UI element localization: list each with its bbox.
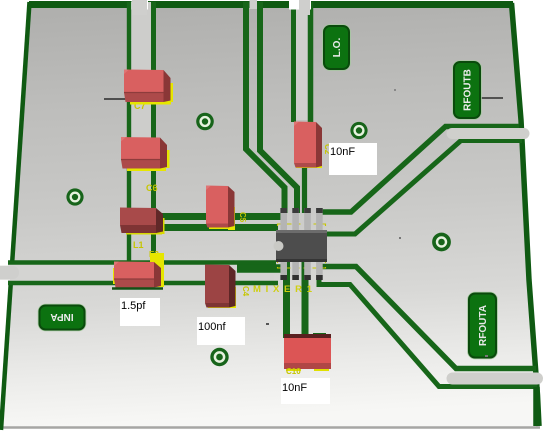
wire: mid column right outline (308, 2, 314, 122)
pin 5 bottom (316, 259, 323, 280)
IC body (276, 230, 327, 262)
pin 2 top (292, 208, 299, 231)
capacitor C4 100nf (dark, vertical) (205, 265, 236, 309)
wire: IC bottom pin1 trace down to C10 (283, 262, 290, 338)
wire: trace from top capacitor down to IC pin 3 (302, 166, 307, 213)
wire: RFOUTA upper trace (322, 267, 536, 369)
pin 4 top (316, 208, 323, 231)
wire: trace pair to IC pins 1-2, right member (260, 2, 297, 213)
leader line to C7 (104, 98, 148, 100)
board bottom edge (1, 426, 540, 429)
wire: RFOUTB upper trace from IC pin 4 (319, 127, 519, 213)
tooltip 10nF top (329, 143, 377, 175)
svg-text:L1: L1 (133, 240, 144, 250)
wire: trace pair to IC pins 1-2, left member (246, 2, 285, 213)
wire: left column right outline (151, 2, 156, 264)
wire: IC bottom pin3 trace down to C10 (302, 262, 309, 338)
capacitor C6 (121, 137, 170, 171)
wire: corner trace down right edge (533, 387, 540, 426)
via left (66, 188, 83, 205)
pin 1 top (280, 208, 287, 231)
op-amp U1 MIXER1 SOIC-8 (274, 208, 328, 280)
inductor L1 (112, 253, 164, 289)
wire: RFOUTA wide gray stub to edge (453, 373, 538, 385)
label L.O. (323, 25, 350, 70)
pin 8 bottom (280, 259, 287, 280)
wire: left edge gray stub overhang (0, 266, 19, 279)
capacitor C10 10nF bottom (284, 334, 331, 371)
label INPA (upside down) (39, 305, 86, 331)
via top left (196, 113, 214, 131)
wire: RFOUTB wide gray stub to edge (452, 128, 524, 139)
svg-text:10nF: 10nF (282, 382, 307, 394)
wire: RFOUTB lower trace (326, 141, 522, 235)
svg-text:C6: C6 (146, 183, 158, 193)
capacitor C7 (124, 70, 173, 105)
speck bottom right (485, 355, 488, 357)
node: top edge gap for left column stub (132, 0, 149, 10)
svg-text:L.O.: L.O. (332, 38, 343, 58)
label RFOUTA (468, 293, 497, 359)
capacitor C2 10nF top (vertical) (294, 122, 322, 169)
wire: left column left outline (127, 2, 131, 264)
svg-text:10nF: 10nF (330, 146, 355, 158)
wire: pair gray stub overhang at top (250, 0, 258, 9)
pad silkscreen top (278, 224, 326, 231)
svg-text:100nf: 100nf (198, 321, 226, 333)
via right middle (432, 233, 451, 252)
tooltip 100nf (197, 317, 245, 345)
label RFOUTB (453, 61, 481, 119)
capacitor C5 (vertical) (206, 186, 235, 231)
inductor C8 (dark) (120, 208, 165, 235)
via near 10nF label (350, 122, 367, 139)
board edge top (29, 1, 513, 8)
wire: small trace at C10 top right (313, 333, 326, 336)
leader line from RFOUTB (479, 97, 503, 99)
wire: left horizontal wide trace fill (8, 265, 274, 282)
node: top edge gap for mid column stub (289, 0, 311, 10)
svg-text:INPA: INPA (50, 311, 73, 322)
wire: left horizontal wide trace top outline (8, 260, 276, 264)
svg-text:C4: C4 (241, 286, 250, 297)
wire: left horizontal wide trace bottom outline (8, 281, 278, 286)
svg-text:RFOUTB: RFOUTB (463, 69, 474, 111)
wire: mid column gray stub overhang (299, 0, 310, 15)
wire: RFOUTA lower trace from IC pin 5 (319, 262, 537, 387)
wire: mid column left outline (291, 2, 296, 122)
node: left edge gap for stub (0, 266, 10, 281)
speck top (394, 89, 396, 91)
tooltip 10nF bottom (281, 378, 330, 404)
pin-1 notch (274, 241, 284, 251)
wire: mid wide vertical trace fill (L.O. column) (294, 2, 312, 120)
tooltip 1.5pf (120, 298, 160, 326)
svg-text:RFOUTA: RFOUTA (478, 305, 489, 346)
svg-text:C5: C5 (238, 212, 247, 223)
wire: horizontal trace C8 to C5 to IC upper (160, 213, 281, 220)
board edge right (512, 3, 540, 426)
pin 7 bottom (292, 259, 299, 280)
wire: left wide vertical trace fill (C-chain column) (131, 2, 151, 264)
wire: horizontal trace C8 to C5 to IC lower (160, 224, 278, 231)
speck near 100nf (266, 323, 269, 325)
pin 6 bottom (304, 259, 311, 280)
speck right (399, 237, 401, 239)
pin 3 top (304, 208, 311, 231)
wire: 100nf to IC bottom elbow (237, 264, 283, 273)
board edge left (1, 2, 30, 430)
wire: left column gray stub overhang (132, 0, 147, 15)
svg-text:1.5pf: 1.5pf (121, 300, 146, 312)
svg-text:C10: C10 (286, 367, 301, 376)
via below 100nf (210, 348, 228, 366)
